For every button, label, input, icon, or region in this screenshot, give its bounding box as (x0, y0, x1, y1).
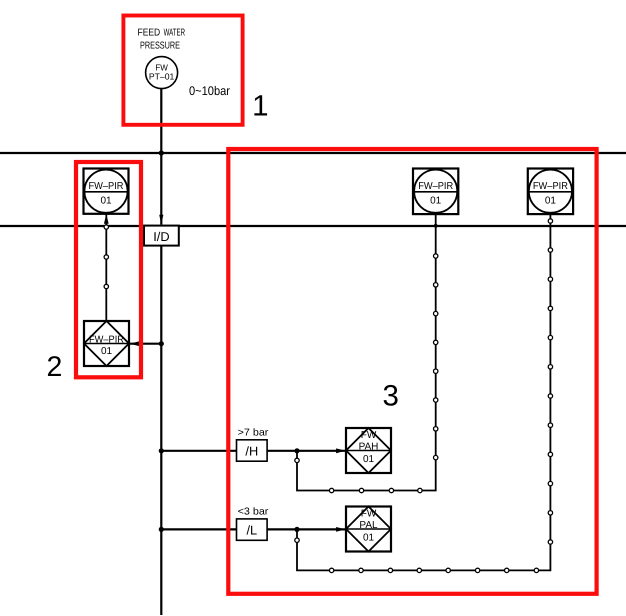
junction: link1 joins /H wire (294, 448, 299, 453)
region marker 2 (76, 162, 141, 377)
wire: main signal to FW-PIR alarm (130, 341, 164, 346)
svg-text:>7 bar: >7 bar (238, 428, 270, 439)
svg-text:/H: /H (245, 444, 258, 459)
alarm FW-PIR 01 (left diamond) (84, 321, 129, 366)
svg-text:FW–PIR: FW–PIR (533, 181, 568, 192)
svg-text:01: 01 (101, 346, 113, 357)
junction: alarm branch (159, 341, 164, 346)
indicator FW-PIR 01 (left panel) (84, 169, 129, 214)
svg-text:01: 01 (430, 196, 442, 207)
transmitter FW PT-01 (146, 57, 178, 89)
wire: PT-01 signal vertical (160, 88, 162, 224)
svg-text:<3 bar: <3 bar (238, 507, 270, 518)
wire: top bus line (0, 152, 626, 154)
svg-text:0~10bar: 0~10bar (189, 84, 230, 98)
alarm FW PAL 01 (346, 507, 391, 552)
svg-text:01: 01 (100, 196, 112, 207)
svg-text:FW–PIR: FW–PIR (418, 181, 453, 192)
svg-text:FEED: FEED (138, 27, 161, 38)
svg-text:PAH: PAH (359, 442, 379, 453)
indicator FW-PIR 01 (far right panel) (528, 169, 573, 215)
alarm FW PAH 01 (346, 428, 391, 473)
svg-text:01: 01 (363, 454, 375, 465)
svg-text:WATER: WATER (164, 27, 185, 38)
wire: bottom bus line (0, 225, 626, 227)
junction: PT-01 signal x top bus (159, 150, 164, 155)
svg-text:FW–PIR: FW–PIR (89, 181, 124, 192)
limit box /L (237, 519, 268, 540)
junction: main to /H (159, 448, 164, 453)
svg-text:FW: FW (361, 509, 377, 520)
wire: low-alarm branch (159, 527, 346, 532)
software link: PAH alarm to middle indicator (295, 214, 438, 493)
software link: PAL alarm to far indicator (295, 214, 553, 573)
svg-text:FW: FW (361, 430, 377, 441)
junction: link2 joins /L wire (294, 527, 299, 532)
svg-text:FW–PIR: FW–PIR (89, 335, 124, 346)
svg-text:I/D: I/D (153, 229, 169, 244)
arrow: signal into I/D (159, 215, 163, 225)
junction: link on bottom bus (434, 224, 438, 228)
svg-text:1: 1 (252, 89, 268, 122)
software link: FW-PIR alarm to indicator (104, 214, 109, 321)
svg-text:01: 01 (545, 196, 557, 207)
svg-text:PAL: PAL (359, 520, 378, 531)
limit box /H (237, 440, 268, 461)
svg-text:PT–01: PT–01 (149, 72, 175, 82)
svg-text:/L: /L (246, 523, 257, 538)
region marker 3 (228, 149, 596, 594)
svg-text:2: 2 (46, 351, 62, 383)
converter I/D (144, 226, 179, 246)
wire: high-alarm branch (159, 448, 346, 453)
svg-text:01: 01 (363, 533, 375, 544)
svg-text:PRESSURE: PRESSURE (140, 40, 180, 51)
svg-text:3: 3 (382, 379, 398, 412)
junction: main to /L (159, 527, 164, 532)
indicator FW-PIR 01 (middle right panel) (413, 169, 458, 215)
region marker 1 (123, 16, 242, 125)
